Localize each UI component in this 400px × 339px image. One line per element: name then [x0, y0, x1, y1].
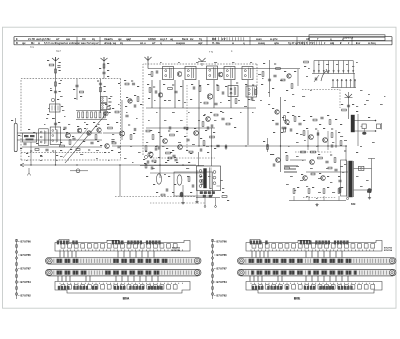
annotation speck 81 — [84, 121, 86, 124]
value label lbl86 — [190, 99, 192, 100]
wire IF box bottom rail — [146, 127, 215, 129]
strip connector lead x=256 — [255, 251, 257, 258]
wire aerial chain to bus — [55, 150, 57, 165]
resistor R63 — [286, 156, 288, 161]
dial scale backing strip — [55, 282, 190, 294]
transistor TS11 — [158, 93, 162, 97]
annotation speck 53 — [208, 175, 210, 178]
strip connector lead x=64 — [63, 251, 65, 258]
annotation speck 27 — [238, 99, 240, 102]
value label lbl98 — [170, 152, 172, 153]
wire AM box rail 2 — [17, 139, 102, 141]
switch bank top tie bar — [314, 60, 353, 62]
value label lbl116 — [286, 90, 288, 91]
annotation speck 10 — [130, 99, 132, 102]
transistor TS20 — [323, 138, 328, 143]
wire AF vertical x=160 — [159, 145, 161, 178]
resistor R73 — [311, 173, 315, 175]
de-emphasis network — [362, 124, 366, 129]
value label lbl71 — [153, 87, 155, 88]
strip connector lead x=278 — [277, 276, 279, 282]
annotation speck 12 — [136, 117, 138, 120]
resistor R22 — [217, 86, 219, 91]
capacitor C28 — [216, 144, 219, 146]
strip connector lead x=68 — [67, 251, 69, 258]
value label lbl137 — [146, 176, 148, 177]
output transformer right winding line — [353, 161, 355, 197]
strip connector lead x=342 — [341, 251, 343, 258]
value label lbl47 — [83, 141, 85, 142]
dashed bottom partition — [115, 196, 196, 198]
oscillator coil can upper — [101, 96, 107, 102]
IF transformer S5 — [242, 67, 253, 80]
strip connector lead x=254 — [253, 276, 255, 282]
value label lbl163 — [298, 116, 300, 117]
annotation speck 69 — [342, 171, 344, 174]
strip connector lead x=62 — [61, 276, 63, 282]
resistor R64 — [285, 167, 290, 169]
strip connector lead x=312 — [311, 251, 313, 258]
transistor TS15 — [194, 131, 199, 136]
value label lbl42 — [52, 151, 54, 152]
svg-text:B7U764: B7U764 — [384, 249, 393, 252]
strip connector lead x=70 — [69, 276, 71, 282]
resistor R15 — [112, 142, 116, 144]
value label lbl55 — [116, 122, 118, 123]
bus junction dots — [156, 145, 157, 146]
trimmer core symbol — [51, 98, 54, 101]
wire oscillator link — [103, 132, 119, 134]
on/off switch — [76, 169, 80, 173]
transistor TS24 — [310, 160, 315, 165]
value label lbl35 — [28, 129, 30, 130]
wire IF vertical drop x=199 — [198, 80, 200, 146]
value label lbl96 — [213, 132, 215, 133]
svg-text:uFwqL wq: uFwqL wq — [104, 42, 117, 45]
drive bar scale hatch — [245, 259, 247, 263]
capacitor C29 — [168, 126, 170, 129]
lower bus junction dots — [30, 164, 31, 165]
value label lbl159 — [335, 119, 337, 120]
value label lbl162 — [292, 115, 294, 116]
resistor R56 — [340, 141, 342, 146]
transformer winding dark bar — [204, 169, 207, 189]
wire band vertical 2 — [297, 69, 299, 86]
annotation speck 78 — [138, 151, 141, 154]
title-block left border — [13, 37, 15, 45]
transistor TS12 — [207, 94, 212, 99]
value label lbl34 — [18, 135, 20, 136]
junction bar — [368, 158, 375, 160]
capacitor C52 — [325, 160, 328, 162]
annotation speck 73 — [60, 155, 63, 158]
transistor TS8 — [128, 99, 132, 103]
annotation speck 88 — [244, 105, 247, 108]
annotation speck 104 — [352, 65, 354, 68]
transistor TS2 — [66, 133, 71, 138]
resistor R38 — [281, 79, 285, 81]
value label lbl172 — [272, 154, 274, 155]
annotation speck 63 — [372, 141, 375, 144]
wire AM aerial down-lead — [55, 57, 57, 78]
wire IF vertical drop x=160 — [159, 80, 161, 145]
value label lbl135 — [176, 162, 178, 163]
strip connector lead x=262 — [261, 276, 263, 282]
strip connector lead x=152 — [151, 276, 153, 282]
annotation speck 102 — [308, 67, 310, 70]
value label lbl58 — [112, 108, 114, 109]
resistor R29 — [210, 136, 215, 138]
capacitor C1 — [57, 65, 60, 67]
annotation speck 74 — [80, 153, 83, 156]
capacitor C39 — [150, 166, 152, 169]
value label lbl141 — [187, 176, 189, 177]
svg-text:GRAM: GRAM — [148, 38, 156, 41]
oscillator coil can 2 — [50, 127, 61, 145]
annotation speck 86 — [204, 113, 206, 116]
value label lbl184 — [327, 176, 329, 177]
annotation speck 45 — [304, 139, 306, 142]
value label lbl173 — [285, 152, 287, 153]
annotation speck 80 — [68, 123, 70, 126]
dial-cord diagonal link — [65, 112, 108, 164]
annotation speck 62 — [360, 145, 362, 148]
value label lbl54 — [107, 124, 109, 125]
resistor R40 — [342, 109, 347, 111]
drive bar scale hatch — [53, 259, 55, 263]
stamped hole row — [252, 285, 256, 289]
capacitor C18 — [155, 70, 157, 73]
value label lbl64 — [124, 80, 126, 81]
strip connector lead x=86 — [85, 276, 87, 282]
annotation speck 117 — [296, 165, 299, 168]
capacitor C10 — [23, 142, 26, 144]
transistor TS22 — [275, 110, 279, 114]
capacitor C32 — [210, 124, 212, 127]
value label lbl14 — [99, 68, 101, 69]
capacitor C34 — [273, 74, 276, 76]
dial scale backing strip — [246, 240, 382, 252]
resistor R67 — [339, 188, 341, 193]
value label lbl81 — [245, 84, 247, 85]
capacitor C53 — [338, 179, 341, 181]
transistor TS19 — [309, 135, 314, 140]
strip connector lead x=252 — [251, 251, 253, 258]
capacitor C36 — [347, 104, 350, 106]
value label lbl41 — [30, 151, 32, 152]
value label lbl94 — [194, 128, 196, 129]
drive pulley left — [47, 258, 52, 263]
value label lbl6 — [59, 91, 61, 92]
resistor R36 — [291, 84, 293, 89]
value label lbl32 — [100, 145, 102, 146]
annotation speck 29 — [148, 119, 150, 122]
drive bar scale hatch — [245, 271, 247, 275]
annotation speck 38 — [292, 93, 294, 96]
resistor R60 — [282, 127, 286, 129]
resistor R3 — [55, 82, 57, 86]
strip connector lead x=76 — [75, 251, 77, 258]
resistor R7 — [60, 145, 65, 147]
value label lbl175 — [330, 155, 332, 156]
AM aerial symbol — [52, 57, 59, 61]
value label lbl93 — [186, 129, 188, 130]
value label lbl17 — [80, 96, 82, 97]
rivet tick row — [250, 283, 252, 284]
wire secondary upper — [354, 168, 372, 170]
part label B7U/767 — [214, 268, 216, 270]
capacitor C31 — [221, 117, 224, 119]
capacitor C24 — [214, 102, 217, 104]
value label lbl123 — [150, 157, 152, 158]
value label lbl46 — [60, 142, 62, 143]
resistor R4 — [103, 64, 105, 68]
annotation speck 14 — [148, 73, 151, 76]
annotation speck 31 — [180, 119, 183, 122]
resistor R65 — [318, 157, 323, 159]
strip connector lead x=154 — [153, 251, 155, 258]
strip connector lead x=324 — [323, 276, 325, 282]
wire bottom right rail — [289, 200, 346, 202]
svg-text:B7U/765: B7U/765 — [217, 253, 228, 257]
value label lbl176 — [356, 152, 358, 153]
oscillator coil can lower — [101, 104, 107, 110]
part label B7U/766 — [214, 241, 216, 243]
value label lbl97 — [150, 152, 152, 153]
strip connector lead x=148 — [147, 251, 149, 258]
value label lbl75 — [191, 84, 193, 85]
component group on strip — [250, 241, 252, 244]
annotation speck 84 — [172, 111, 175, 114]
svg-text:B7U/766: B7U/766 — [21, 240, 32, 244]
strip connector lead x=140 — [139, 276, 141, 282]
capacitor C6 — [99, 82, 102, 84]
transistor TS9 — [177, 72, 182, 77]
strip connector lead x=60 — [59, 251, 61, 258]
resistor R12 — [108, 127, 113, 129]
wire ratio det right rail — [357, 114, 359, 146]
switch bank upper contacts — [313, 61, 315, 74]
capacitor C44 — [224, 145, 226, 148]
capacitor C4 — [102, 71, 105, 73]
value label lbl112 — [284, 71, 286, 72]
value label lbl39 — [84, 128, 86, 129]
annotation speck 103 — [356, 61, 358, 64]
annotation speck 55 — [210, 187, 212, 190]
strip connector lead x=264 — [263, 251, 265, 258]
resistor R68 — [293, 189, 295, 194]
annotation speck 123 — [316, 197, 318, 200]
resistor R39 — [304, 61, 309, 63]
resistor R41 — [145, 146, 147, 151]
dashed internal divider — [186, 85, 188, 150]
tuning drive bar — [238, 269, 397, 276]
value label lbl109 — [234, 127, 236, 128]
strip connector lead x=72 — [71, 251, 73, 258]
annotation speck 11 — [126, 111, 128, 114]
value label lbl151 — [306, 128, 308, 129]
capacitor C37 — [154, 147, 156, 150]
value label lbl56 — [128, 125, 130, 126]
value label lbl119 — [341, 104, 343, 105]
padder trimmer — [107, 106, 111, 110]
annotation speck 96 — [268, 103, 270, 106]
output jack — [359, 166, 364, 170]
value label lbl3 — [59, 70, 61, 71]
strip connector lead x=282 — [281, 276, 283, 282]
wire secondary right rail — [371, 159, 373, 191]
resistor R52 — [303, 131, 305, 136]
wire switch bank drop — [353, 74, 355, 88]
resistor R44 — [145, 164, 147, 168]
value label lbl18 — [74, 98, 76, 99]
value label lbl38 — [77, 126, 79, 127]
wire output transformer feed — [345, 146, 347, 161]
value label lbl31 — [93, 122, 95, 123]
wire ferrite feed — [15, 118, 17, 123]
transistor TS23 — [276, 158, 281, 163]
dashed enclosure IF unit top — [143, 64, 257, 155]
output valve envelope — [177, 175, 182, 185]
annotation speck 4 — [48, 107, 50, 110]
resistor R5 — [80, 91, 84, 93]
value label lbl134 — [165, 162, 167, 163]
capacitor C16 — [132, 82, 135, 84]
capacitor C15 — [117, 145, 120, 147]
annotation speck 34 — [240, 111, 242, 114]
value label lbl95 — [205, 130, 207, 131]
svg-text:4,5 Mc: 4,5 Mc — [43, 38, 51, 41]
value label lbl65 — [131, 81, 133, 82]
value label lbl76 — [199, 85, 201, 86]
value label lbl149 — [222, 192, 224, 193]
value label lbl108 — [230, 118, 232, 119]
input connector box — [23, 133, 37, 142]
strip connector lead x=324 — [323, 251, 325, 258]
value label lbl87 — [228, 100, 230, 101]
wave-band switch bank lower rail — [331, 87, 356, 89]
wire IF vertical drop x=214 — [213, 80, 215, 108]
wire main lower bus — [20, 164, 196, 166]
annotation speck 64 — [318, 177, 321, 180]
value label lbl140 — [174, 184, 176, 185]
transistor TS4 — [87, 131, 91, 135]
annotation speck 83 — [156, 111, 158, 114]
resistor R26 — [152, 135, 154, 140]
dashed lower partition 2 — [150, 202, 205, 204]
resistor R8 — [69, 140, 71, 145]
mains terminal 2 — [215, 206, 217, 208]
drive pulley left — [239, 258, 244, 263]
strip connector lead x=258 — [257, 276, 259, 282]
value label lbl148 — [270, 154, 272, 155]
dashed bottom right partition — [303, 197, 336, 199]
dashed enclosure IF unit right — [256, 64, 258, 90]
dashed link to FM unit — [302, 89, 340, 91]
wave-band switch bank upper rail — [312, 73, 355, 75]
annotation speck 5 — [62, 109, 64, 112]
value label lbl180 — [327, 187, 329, 188]
annotation speck 112 — [296, 141, 299, 144]
drive bar scale hatch — [53, 271, 55, 275]
value label lbl62 — [104, 152, 106, 153]
transistor TS21 — [285, 120, 289, 124]
capacitor C22 — [221, 91, 223, 94]
wire mixer feed column — [100, 79, 102, 113]
annotation speck 60 — [326, 167, 328, 170]
annotation speck 108 — [356, 105, 358, 108]
value label lbl27 — [11, 120, 13, 121]
value label lbl167 — [272, 108, 274, 109]
value label lbl10 — [52, 118, 55, 119]
svg-text:q2w: q2w — [274, 42, 279, 45]
svg-text:21-7R: 21-7R — [28, 38, 35, 41]
capacitor C11 — [45, 148, 48, 150]
value label lbl91 — [168, 131, 170, 132]
annotation speck 100 — [310, 89, 312, 92]
capacitor C2 — [54, 90, 57, 92]
title-block column divider 6 — [351, 37, 353, 45]
annotation speck 66 — [306, 185, 308, 188]
svg-text:ww: ww — [66, 38, 70, 41]
wire AF rail y=173 — [150, 172, 204, 174]
svg-text:wuwq: wuwq — [258, 42, 265, 45]
part label B7U/764 — [214, 281, 216, 283]
switch bank lower contacts — [332, 79, 334, 88]
capacitor C48 — [320, 116, 323, 118]
value label lbl106 — [210, 112, 212, 113]
value label lbl67 — [126, 97, 128, 98]
annotation speck 110 — [300, 133, 302, 136]
value label lbl170 — [287, 124, 289, 125]
rivet tick row — [59, 283, 61, 284]
value label lbl77 — [207, 84, 209, 85]
AF driver valve envelope — [156, 174, 161, 184]
svg-text:B6E: B6E — [294, 297, 301, 301]
svg-text:w: w — [38, 42, 40, 45]
value label lbl101 — [160, 136, 162, 137]
svg-text:w: w — [232, 42, 234, 45]
resistor R37 — [262, 72, 264, 77]
annotation speck 97 — [284, 99, 286, 102]
value label lbl174 — [318, 154, 320, 155]
part label B7U/765 — [18, 254, 20, 256]
wire AM box rail 3 — [22, 146, 102, 148]
ratio detector winding lead upper — [355, 120, 376, 122]
annotation speck 42 — [346, 63, 348, 66]
value label lbl132 — [144, 163, 146, 164]
annotation speck 118 — [290, 175, 293, 178]
header type-number box — [309, 35, 385, 41]
value label lbl51 — [40, 155, 42, 156]
value label lbl168 — [287, 112, 289, 113]
value label lbl74 — [180, 86, 182, 87]
strip connector lead x=128 — [127, 276, 129, 282]
title-block column divider 3 — [206, 37, 208, 45]
annotation speck 25 — [200, 101, 202, 104]
annotation speck 9 — [118, 103, 120, 106]
pilot lamp — [368, 189, 372, 193]
value label lbl142 — [200, 176, 202, 177]
svg-text:w 2wq: w 2wq — [368, 42, 376, 45]
title-block column divider 5 — [296, 37, 298, 45]
wire IF vertical drop x=152 — [151, 80, 153, 108]
annotation speck 67 — [318, 191, 321, 194]
annotation speck 1 — [60, 79, 62, 82]
capacitor C26 — [157, 146, 159, 149]
annotation speck 79 — [44, 123, 45, 126]
annotation speck 47 — [332, 141, 334, 144]
